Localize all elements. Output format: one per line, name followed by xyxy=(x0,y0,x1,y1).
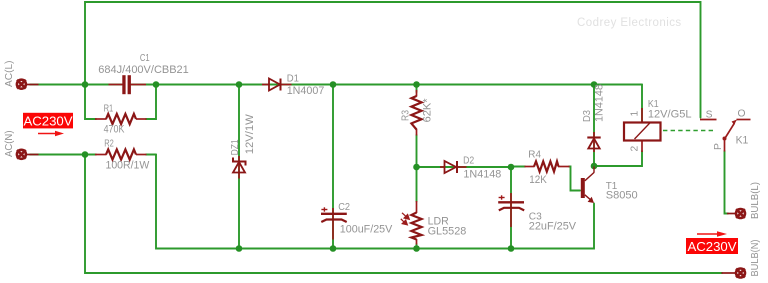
svg-text:684J/400V/CBB21: 684J/400V/CBB21 xyxy=(98,64,189,76)
svg-text:P: P xyxy=(713,143,724,150)
connector AC(L) xyxy=(17,80,39,89)
diode D2 xyxy=(440,155,501,180)
zener DZ1 xyxy=(230,114,256,179)
wire AC(N) down rail xyxy=(85,155,722,274)
svg-text:AC(N): AC(N) xyxy=(4,131,15,158)
svg-text:100R/1W: 100R/1W xyxy=(106,159,150,171)
resistor R1 xyxy=(95,103,147,135)
wire AC(N) bus xyxy=(30,154,96,156)
junction node R3 top xyxy=(413,81,420,88)
transistor T1 xyxy=(581,167,638,204)
svg-text:12V/G5L: 12V/G5L xyxy=(648,108,692,120)
relay coil K1 xyxy=(624,99,692,152)
svg-text:C1: C1 xyxy=(140,53,150,64)
svg-text:22uF/25V: 22uF/25V xyxy=(529,221,577,233)
junction node DZ1 bottom xyxy=(236,245,243,252)
wire D2 row xyxy=(417,166,512,168)
junction node DZ1 top xyxy=(236,81,243,88)
svg-text:DZ1: DZ1 xyxy=(230,139,241,155)
diode D3 xyxy=(582,84,605,152)
wire C2 branch xyxy=(332,85,334,249)
wire R4 to base xyxy=(511,166,525,168)
diode D1 xyxy=(262,73,324,97)
junction node D3 top xyxy=(591,81,598,88)
junction node C1 right xyxy=(153,81,160,88)
svg-text:S8050: S8050 xyxy=(606,190,638,202)
svg-text:GL5528: GL5528 xyxy=(428,226,467,238)
wire R1 loop xyxy=(85,85,96,120)
resistor R4 xyxy=(525,150,570,186)
resistor R2 xyxy=(95,138,150,171)
svg-text:1N4007: 1N4007 xyxy=(287,85,325,97)
label AC230V output xyxy=(686,231,738,254)
svg-text:R4: R4 xyxy=(528,150,541,161)
svg-text:R2: R2 xyxy=(104,138,114,149)
svg-text:62K*: 62K* xyxy=(421,98,433,123)
svg-text:Codrey Electronics: Codrey Electronics xyxy=(577,17,682,29)
connector BULB(L) xyxy=(727,209,745,218)
svg-text:2: 2 xyxy=(630,146,641,152)
wire R2 to common rail xyxy=(156,155,594,249)
svg-text:D3: D3 xyxy=(582,110,593,122)
wire AC(L) bus xyxy=(30,84,122,86)
junction node R3/LDR/D2 xyxy=(413,164,420,171)
resistor R3 xyxy=(401,90,434,136)
svg-text:R1: R1 xyxy=(104,103,114,114)
junction node D2/R4/C3 xyxy=(508,164,515,171)
wire D3 branch xyxy=(593,85,595,167)
svg-text:K1: K1 xyxy=(736,134,749,146)
connector BULB(N) xyxy=(722,269,746,278)
svg-text:R3: R3 xyxy=(401,110,412,121)
label AC230V input xyxy=(23,113,73,137)
svg-text:D1: D1 xyxy=(287,73,299,84)
svg-text:AC230V: AC230V xyxy=(23,114,72,129)
svg-text:1N4148: 1N4148 xyxy=(463,169,501,181)
wire R3/LDR branch xyxy=(416,85,418,93)
capacitor C2 xyxy=(321,202,393,240)
wire collector node to relay pin2 xyxy=(594,151,642,166)
wire top bus xyxy=(85,2,701,118)
svg-text:BULB(L): BULB(L) xyxy=(750,182,761,219)
svg-text:S: S xyxy=(706,109,713,120)
wire switch pole to bulb xyxy=(725,151,729,214)
junction node LDR bottom xyxy=(413,245,420,252)
capacitor C1 xyxy=(98,53,189,94)
svg-text:D2: D2 xyxy=(463,155,474,166)
junction node C2 top xyxy=(330,81,337,88)
svg-text:1N4148: 1N4148 xyxy=(593,84,605,122)
capacitor C3 xyxy=(498,193,576,233)
LDR GL5528 xyxy=(401,201,467,245)
wire relay pin1 drop xyxy=(641,85,643,123)
junction node C2 bottom xyxy=(330,245,337,252)
junction node C3 bottom xyxy=(508,245,515,252)
junction node AC(L)-top xyxy=(82,81,89,88)
relay dashed link xyxy=(663,130,714,132)
wire C3 branch xyxy=(510,167,512,249)
svg-text:12K: 12K xyxy=(529,174,547,186)
svg-text:1: 1 xyxy=(630,111,641,117)
connector AC(N) xyxy=(17,150,39,159)
relay contact K1 xyxy=(700,109,751,152)
junction node AC(N) xyxy=(82,151,89,158)
svg-text:C2: C2 xyxy=(338,202,350,213)
svg-text:BULB(N): BULB(N) xyxy=(750,240,761,277)
svg-text:O: O xyxy=(738,109,746,120)
svg-text:AC230V: AC230V xyxy=(687,239,736,254)
svg-text:470K: 470K xyxy=(104,123,125,135)
svg-text:12V/1W: 12V/1W xyxy=(244,114,256,154)
svg-text:AC(L): AC(L) xyxy=(4,61,15,88)
junction node collector xyxy=(591,163,598,170)
svg-text:100uF/25V: 100uF/25V xyxy=(340,223,393,235)
wire DZ1 branch xyxy=(238,85,240,249)
